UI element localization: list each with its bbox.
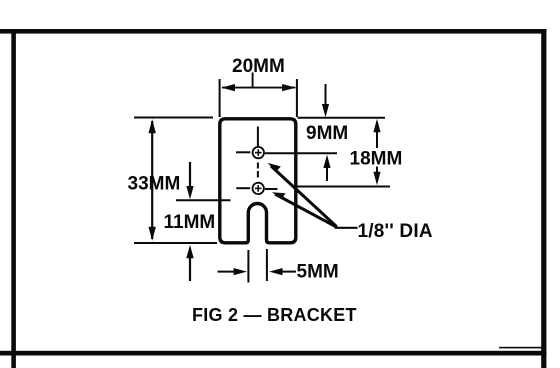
- bracket outline: [220, 119, 296, 243]
- page frame right rule: [541, 29, 546, 368]
- 20MM dimension extension line left: [219, 79, 221, 117]
- hole 2 cross: [255, 187, 262, 189]
- 33MM dimension line with arrows: [151, 121, 153, 239]
- 11MM slot-top extension line: [176, 199, 231, 201]
- svg-text:FIG 2 — BRACKET: FIG 2 — BRACKET: [192, 305, 357, 325]
- 20MM dimension line: [222, 87, 295, 89]
- svg-text:33MM: 33MM: [128, 174, 181, 195]
- hole 2 level extension line (18MM reference): [298, 186, 391, 188]
- 18MM bottom arrow (down): [376, 167, 378, 174]
- 33MM top extension line: [134, 117, 213, 119]
- page frame top rule: [0, 29, 547, 34]
- leader horizontal tail: [335, 227, 358, 229]
- hole 1 circle: [253, 147, 264, 158]
- 5MM slot extension line right: [266, 249, 268, 281]
- hole 1 centerline extension right (9MM reference): [265, 152, 337, 154]
- 5MM left arrow (pointing right): [218, 271, 238, 273]
- 5MM right arrow (pointing left): [269, 268, 282, 275]
- svg-text:11MM: 11MM: [164, 212, 216, 233]
- svg-text:20MM: 20MM: [232, 56, 285, 77]
- vertical centerline above hole 1: [257, 127, 259, 147]
- hole 2 centerline right dash: [265, 188, 278, 190]
- svg-text:5MM: 5MM: [297, 262, 339, 283]
- leader line to hole 1: [271, 166, 337, 227]
- hole 2 horizontal centerline left dash: [236, 187, 250, 189]
- 9MM top arrow (down): [325, 84, 327, 107]
- 20MM dimension extension line right: [296, 79, 298, 117]
- svg-text:9MM: 9MM: [306, 123, 348, 144]
- 18MM top arrow (up): [373, 119, 380, 132]
- scan artifact line above bottom rule: [499, 347, 544, 349]
- page frame left rule: [11, 29, 16, 368]
- leader line to hole 2: [275, 194, 337, 227]
- page frame bottom rule: [0, 351, 546, 356]
- 5MM slot extension line left: [247, 250, 249, 283]
- hole 1 horizontal centerline left dash: [236, 151, 250, 153]
- hole 2 circle: [253, 183, 264, 194]
- svg-text:1/8'' DIA: 1/8'' DIA: [358, 221, 433, 242]
- top edge extension line right (9MM/18MM reference): [298, 117, 386, 119]
- vertical centerline dashes between holes: [257, 163, 259, 169]
- 11MM top arrow (down): [189, 162, 191, 188]
- 33MM bottom extension line: [134, 242, 217, 244]
- 11MM bottom arrow (up): [186, 245, 193, 258]
- 20MM label tick: [252, 73, 254, 88]
- hole 1 cross: [255, 152, 262, 154]
- 9MM bottom arrow (up): [323, 155, 330, 168]
- svg-text:18MM: 18MM: [350, 149, 403, 170]
